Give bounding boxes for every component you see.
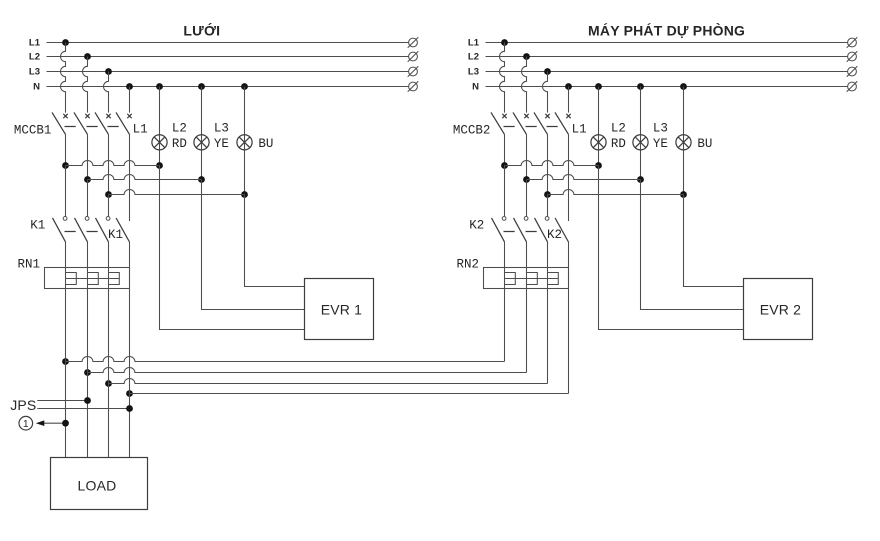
arrow from load bus 1 to node 1 xyxy=(36,420,66,426)
wire MCCB1 pole 1 to lamp 1 (hops) xyxy=(66,161,160,166)
terminal Ø L3 (máy phát) xyxy=(847,66,858,77)
wire lamp 2 down to EVR 1 xyxy=(202,180,305,310)
wire N bus down through lamp 2 (máy phát) xyxy=(640,87,642,180)
junction L3 bus / MCCB2 pole 3 xyxy=(544,68,551,75)
svg-text:L3: L3 xyxy=(653,121,668,135)
svg-text:LƯỚI: LƯỚI xyxy=(183,22,220,39)
wire RN2 pole 4 through relay xyxy=(568,268,570,289)
terminal Ø L3 (lưới) xyxy=(408,66,419,77)
junction L3 bus / MCCB1 pole 3 xyxy=(105,68,112,75)
junction JPS / load bus 4 xyxy=(126,405,133,412)
wire RN1 pole 4 down to LOAD xyxy=(129,289,131,458)
heater elements RN1 xyxy=(66,273,120,285)
svg-text:YE: YE xyxy=(653,137,668,151)
junction MCCB1 pole 1 output / lamp feed xyxy=(62,162,69,169)
terminal Ø L2 (lưới) xyxy=(408,51,419,62)
wire L3 down to MCCB1 pole 3 (hops over lower buses) xyxy=(104,72,109,113)
voltage relay EVR 2 box xyxy=(744,279,813,340)
contactor blade K1 pole 1 xyxy=(53,218,66,242)
junction lamp 1 / phase feed (lưới) xyxy=(156,162,163,169)
bus L2 (lưới) xyxy=(29,52,409,63)
linkage dashes MCCB1 xyxy=(65,126,119,128)
wire K1 pole 2 down to RN1 xyxy=(87,242,89,268)
wire RN1 pole 3 down to LOAD xyxy=(108,289,110,458)
junction MCCB1 pole 2 output / lamp feed xyxy=(84,176,91,183)
breaker terminal x mark, MCCB1 pole 3 xyxy=(106,114,110,118)
wire N bus down through lamp 1 (lưới) xyxy=(159,87,161,166)
wire N bus down through lamp 3 (máy phát) xyxy=(683,87,685,195)
breaker terminal x mark, MCCB2 pole 1 xyxy=(502,114,506,118)
wire RN2 pole 2 through relay xyxy=(526,268,528,289)
svg-text:N: N xyxy=(33,82,40,93)
svg-text:K1: K1 xyxy=(108,228,123,242)
junction load bus 1 / K1 side xyxy=(62,358,69,365)
wire MCCB1 pole 3 output down xyxy=(108,134,110,194)
contactor blade K2 pole 2 xyxy=(514,218,527,242)
breaker blade MCCB1 pole 1 xyxy=(52,112,66,134)
svg-text:MÁY PHÁT DỰ PHÒNG: MÁY PHÁT DỰ PHÒNG xyxy=(588,22,745,39)
junction load bus 3 / K1 side xyxy=(105,380,112,387)
contactor blade K1 pole 2 xyxy=(75,218,88,242)
wire transfer net 4: RN2 pole 4 to load bus 4 xyxy=(130,289,569,394)
svg-text:K1: K1 xyxy=(30,218,45,232)
wire MCCB2 pole 2 down to K2 pole 2 xyxy=(526,180,528,217)
junction N bus / lamp column 2 (lưới) xyxy=(198,83,205,90)
contact circle K2 pole 1 xyxy=(502,217,506,221)
svg-text:L2: L2 xyxy=(468,52,479,63)
svg-text:1: 1 xyxy=(23,419,29,430)
wire MCCB2 pole 4 output down xyxy=(568,134,570,221)
contactor blade K2 pole 4 xyxy=(555,218,568,242)
svg-text:K2: K2 xyxy=(547,228,562,242)
linkage dashes K2 xyxy=(504,231,537,233)
junction L1 bus / MCCB1 pole 1 xyxy=(62,39,69,46)
contact circle K2 pole 3 xyxy=(545,217,549,221)
wire MCCB1 pole 3 to lamp 3 (hops) xyxy=(109,190,245,195)
junction N bus / lamp column 1 (lưới) xyxy=(156,83,163,90)
wire RN1 pole 2 through relay xyxy=(87,268,89,289)
LOAD box xyxy=(51,458,148,510)
wire N bus down through lamp 1 (máy phát) xyxy=(598,87,600,166)
lamp BU (lưới) xyxy=(237,135,252,150)
wire transfer net 2: RN2 pole 2 to load bus 2 xyxy=(88,289,527,373)
junction lamp 3 / phase feed (lưới) xyxy=(241,191,248,198)
wire MCCB2 pole 2 output down xyxy=(526,134,528,179)
wire RN1 pole 3 through relay xyxy=(108,268,110,289)
wire K1 pole 1 down to RN1 xyxy=(65,242,67,268)
node 1 callout circle xyxy=(19,416,33,430)
bus L1 (lưới) xyxy=(29,38,409,49)
wire RN1 pole 4 through relay xyxy=(129,268,131,289)
contact circle K1 pole 3 xyxy=(106,217,110,221)
junction N bus / MCCB2 pole 4 xyxy=(565,83,572,90)
junction N bus / MCCB1 pole 4 xyxy=(126,83,133,90)
junction MCCB2 pole 1 output / lamp feed xyxy=(501,162,508,169)
breaker terminal x mark, MCCB1 pole 2 xyxy=(85,114,89,118)
linkage dashes K1 xyxy=(65,231,98,233)
svg-text:MCCB1: MCCB1 xyxy=(14,124,52,138)
bus L2 (máy phát) xyxy=(468,52,848,63)
junction N bus / lamp column 3 (lưới) xyxy=(241,83,248,90)
wire K2 pole 3 down to RN2 xyxy=(547,242,549,268)
wire L2 down to MCCB2 pole 2 (hops over lower buses) xyxy=(522,57,527,113)
voltage relay EVR 1 box xyxy=(305,279,374,340)
junction N bus / lamp column 2 (máy phát) xyxy=(637,83,644,90)
wire MCCB2 pole 3 down to K2 pole 3 xyxy=(547,195,549,217)
wire MCCB2 pole 1 down to K2 pole 1 xyxy=(504,166,506,217)
wire K2 pole 2 down to RN2 xyxy=(526,242,528,268)
svg-text:L3: L3 xyxy=(214,121,229,135)
svg-text:YE: YE xyxy=(214,137,229,151)
wire MCCB2 pole 3 output down xyxy=(547,134,549,194)
junction lamp 1 / phase feed (máy phát) xyxy=(595,162,602,169)
svg-text:L2: L2 xyxy=(611,121,626,135)
breaker blade MCCB1 pole 4 xyxy=(116,112,130,134)
wire MCCB1 pole 2 to lamp 2 (hops) xyxy=(88,175,202,180)
contactor blade K2 pole 1 xyxy=(492,218,505,242)
wire K1 pole 3 down to RN1 xyxy=(108,242,110,268)
contact circle K1 pole 2 xyxy=(85,217,89,221)
contactor blade K1 pole 4 xyxy=(116,218,129,242)
wire MCCB1 pole 1 output down xyxy=(65,134,67,165)
svg-text:L2: L2 xyxy=(29,52,40,63)
lamp L3 (lưới) xyxy=(194,135,209,150)
breaker terminal x mark, MCCB2 pole 4 xyxy=(566,114,570,118)
svg-text:JPS: JPS xyxy=(10,397,36,413)
wire N down to MCCB2 pole 4 (hops over lower buses) xyxy=(568,87,570,113)
svg-text:RD: RD xyxy=(611,137,626,151)
svg-text:L1: L1 xyxy=(468,38,480,49)
junction MCCB2 pole 3 output / lamp feed xyxy=(544,191,551,198)
svg-text:L1: L1 xyxy=(572,123,587,137)
svg-text:BU: BU xyxy=(697,137,712,151)
breaker terminal x mark, MCCB2 pole 3 xyxy=(545,114,549,118)
wire JPS to load bus 2 xyxy=(37,400,87,402)
breaker blade MCCB2 pole 3 xyxy=(534,112,548,134)
svg-text:EVR 2: EVR 2 xyxy=(760,302,801,318)
junction N bus / lamp column 3 (máy phát) xyxy=(680,83,687,90)
wire RN2 pole 1 through relay xyxy=(504,268,506,289)
wire N down to MCCB1 pole 4 (hops over lower buses) xyxy=(129,87,131,113)
wire L1 down to MCCB2 pole 1 (hops over lower buses) xyxy=(500,43,505,113)
svg-text:MCCB2: MCCB2 xyxy=(453,124,491,138)
junction JPS / load bus 2 xyxy=(84,397,91,404)
wire MCCB1 pole 2 down to K1 pole 2 xyxy=(87,180,89,217)
lamp L2 (lưới) xyxy=(152,135,167,150)
junction L2 bus / MCCB2 pole 2 xyxy=(523,53,530,60)
contact circle K2 pole 2 xyxy=(524,217,528,221)
wire N bus down through lamp 2 (lưới) xyxy=(201,87,203,180)
wire JPS to load bus 4 (N) xyxy=(37,408,129,410)
junction load bus 4 / K1 side xyxy=(126,390,133,397)
bus L3 (máy phát) xyxy=(468,67,848,78)
wire lamp 3 down to EVR 2 xyxy=(684,195,744,287)
wire K1 pole 4 down to RN1 xyxy=(129,242,131,268)
wire MCCB2 pole 1 to lamp 1 (hops) xyxy=(505,160,599,165)
terminal Ø L2 (máy phát) xyxy=(847,51,858,62)
svg-text:L1: L1 xyxy=(29,38,41,49)
lamp L3 (máy phát) xyxy=(633,135,648,150)
breaker blade MCCB1 pole 2 xyxy=(74,112,88,134)
wire L3 down to MCCB2 pole 3 (hops over lower buses) xyxy=(543,72,548,113)
breaker blade MCCB1 pole 3 xyxy=(95,112,109,134)
wire MCCB2 pole 3 to lamp 3 (hops) xyxy=(548,189,684,194)
svg-text:K2: K2 xyxy=(469,218,484,232)
breaker terminal x mark, MCCB2 pole 2 xyxy=(524,114,528,118)
junction lamp 3 / phase feed (máy phát) xyxy=(680,191,687,198)
contactor blade K1 pole 3 xyxy=(96,218,109,242)
wire L2 down to MCCB1 pole 2 (hops over lower buses) xyxy=(83,57,88,113)
breaker blade MCCB2 pole 4 xyxy=(555,112,569,134)
svg-text:L3: L3 xyxy=(468,67,479,78)
wire K2 pole 1 down to RN2 xyxy=(504,242,506,268)
svg-text:RN1: RN1 xyxy=(18,258,41,272)
breaker terminal x mark, MCCB1 pole 1 xyxy=(63,114,67,118)
wire transfer net 1: RN2 pole 1 to load bus 1 xyxy=(66,289,505,362)
junction MCCB1 pole 3 output / lamp feed xyxy=(105,191,112,198)
wire MCCB1 pole 1 down to K1 pole 1 xyxy=(65,166,67,217)
svg-text:RN2: RN2 xyxy=(457,258,480,272)
contact circle K1 pole 1 xyxy=(63,217,67,221)
terminal Ø L1 (lưới) xyxy=(408,37,419,48)
wire lamp 3 down to EVR 1 xyxy=(245,195,305,287)
svg-text:EVR 1: EVR 1 xyxy=(321,302,362,318)
wire RN1 pole 1 down to LOAD xyxy=(65,289,67,458)
svg-text:L3: L3 xyxy=(29,67,40,78)
wire lamp 2 down to EVR 2 xyxy=(641,180,744,310)
wire MCCB2 pole 2 to lamp 2 (hops) xyxy=(527,174,641,179)
bus N (lưới) xyxy=(33,82,408,93)
lamp L2 (máy phát) xyxy=(591,135,606,150)
junction node 1 / load bus 1 xyxy=(62,420,69,427)
breaker terminal x mark, MCCB1 pole 4 xyxy=(127,114,131,118)
wire lamp 1 down to EVR 1 xyxy=(160,166,305,330)
bus N (máy phát) xyxy=(472,82,847,93)
wire lamp 1 down to EVR 2 xyxy=(599,166,744,330)
wire transfer net 3: RN2 pole 3 to load bus 3 xyxy=(109,289,548,384)
wire MCCB2 pole 1 output down xyxy=(504,134,506,165)
svg-text:LOAD: LOAD xyxy=(78,478,117,494)
junction lamp 2 / phase feed (lưới) xyxy=(198,176,205,183)
thermal relay RN2 box xyxy=(484,268,569,289)
bus L3 (lưới) xyxy=(29,67,409,78)
wire RN1 pole 2 down to LOAD xyxy=(87,289,89,458)
svg-text:N: N xyxy=(472,82,479,93)
wire N bus down through lamp 3 (lưới) xyxy=(244,87,246,195)
terminal Ø L1 (máy phát) xyxy=(847,37,858,48)
svg-text:RD: RD xyxy=(172,137,187,151)
linkage dashes MCCB2 xyxy=(504,126,558,128)
svg-text:L1: L1 xyxy=(133,123,148,137)
bus L1 (máy phát) xyxy=(468,38,848,49)
junction lamp 2 / phase feed (máy phát) xyxy=(637,176,644,183)
terminal Ø N (lưới) xyxy=(408,81,419,92)
junction load bus 2 / K1 side xyxy=(84,369,91,376)
wire RN1 pole 1 through relay xyxy=(65,268,67,289)
lamp BU (máy phát) xyxy=(676,135,691,150)
wire K2 pole 4 down to RN2 xyxy=(568,242,570,268)
breaker blade MCCB2 pole 2 xyxy=(513,112,527,134)
thermal relay RN1 box xyxy=(45,268,130,289)
wire MCCB1 pole 4 output down xyxy=(129,134,131,221)
junction MCCB2 pole 2 output / lamp feed xyxy=(523,176,530,183)
wire MCCB1 pole 3 down to K1 pole 3 xyxy=(108,195,110,217)
breaker blade MCCB2 pole 1 xyxy=(491,112,505,134)
contactor blade K2 pole 3 xyxy=(535,218,548,242)
junction N bus / lamp column 1 (máy phát) xyxy=(595,83,602,90)
junction L1 bus / MCCB2 pole 1 xyxy=(501,39,508,46)
wire L1 down to MCCB1 pole 1 (hops over lower buses) xyxy=(61,43,66,113)
terminal Ø N (máy phát) xyxy=(847,81,858,92)
wire RN2 pole 3 through relay xyxy=(547,268,549,289)
junction L2 bus / MCCB1 pole 2 xyxy=(84,53,91,60)
heater elements RN2 xyxy=(505,273,559,285)
svg-text:BU: BU xyxy=(258,137,273,151)
wire MCCB1 pole 2 output down xyxy=(87,134,89,179)
svg-text:L2: L2 xyxy=(172,121,187,135)
